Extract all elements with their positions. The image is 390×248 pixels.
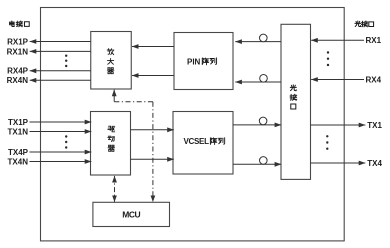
svg-text:RX4P: RX4P (7, 67, 29, 76)
svg-text:TX1: TX1 (367, 121, 382, 130)
svg-text:RX1P: RX1P (7, 37, 29, 46)
svg-text:RX4: RX4 (366, 75, 382, 84)
svg-text:TX1P: TX1P (8, 118, 29, 127)
svg-text:TX4P: TX4P (8, 148, 29, 157)
svg-text:TX4N: TX4N (8, 157, 29, 166)
svg-text:VCSEL: VCSEL (184, 137, 210, 146)
svg-text:RX4N: RX4N (7, 76, 29, 85)
svg-text:PIN: PIN (187, 57, 201, 66)
svg-text:TX4: TX4 (367, 159, 382, 168)
svg-text:TX1N: TX1N (8, 127, 29, 136)
svg-text:MCU: MCU (122, 210, 140, 220)
svg-text:RX1N: RX1N (7, 47, 29, 56)
svg-text:RX1: RX1 (366, 36, 382, 45)
